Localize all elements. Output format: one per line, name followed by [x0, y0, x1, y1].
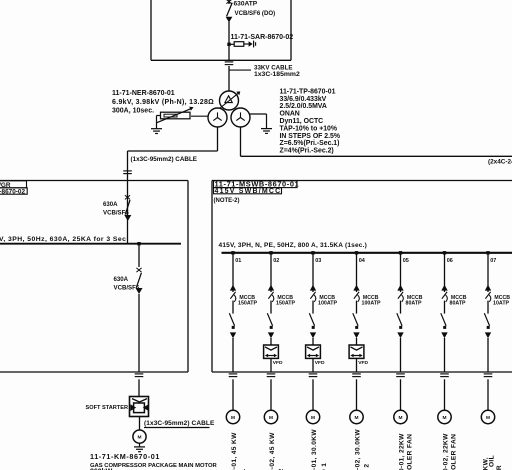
svg-text:(1x3C-95mm2) CABLE: (1x3C-95mm2) CABLE: [131, 156, 198, 163]
svg-text:LUBE OIL: LUBE OIL: [489, 455, 496, 470]
svg-text:6.9kV, 3.98kV (Ph-N), 13.28Ω: 6.9kV, 3.98kV (Ph-N), 13.28Ω: [112, 99, 214, 106]
svg-text:150ATP: 150ATP: [238, 300, 258, 306]
svg-text:M: M: [311, 415, 315, 421]
svg-text:M: M: [231, 415, 235, 421]
svg-text:630A: 630A: [114, 276, 129, 283]
svg-text:S COOLER FAN: S COOLER FAN: [407, 434, 414, 470]
svg-text:03: 03: [315, 258, 321, 264]
svg-text:8670-01, 45 KW: 8670-01, 45 KW: [231, 432, 238, 470]
svg-text:8670-02, 22KW: 8670-02, 22KW: [443, 433, 450, 470]
svg-text:ONAN: ONAN: [280, 111, 300, 118]
svg-text:07: 07: [490, 258, 496, 264]
svg-text:100ATP: 100ATP: [362, 300, 382, 306]
svg-text:Dyn11, OCTC: Dyn11, OCTC: [280, 118, 324, 125]
svg-text:415V, 3PH, N, PE, 50HZ, 800 A: 415V, 3PH, N, PE, 50HZ, 800 A, 31.5KA (1…: [219, 242, 367, 249]
svg-text:8670-01, 22KW: 8670-01, 22KW: [399, 433, 406, 470]
svg-text:11-71-TP-8670-01: 11-71-TP-8670-01: [280, 88, 336, 95]
svg-text:11-71-KM-8670-01: 11-71-KM-8670-01: [90, 452, 160, 461]
svg-text:630A: 630A: [103, 201, 118, 208]
svg-text:M: M: [443, 415, 447, 421]
svg-text:VCB/SF6: VCB/SF6: [114, 285, 140, 292]
svg-text:80ATP: 80ATP: [450, 300, 467, 306]
svg-text:05: 05: [403, 258, 409, 264]
svg-text:415V SWB/MCC: 415V SWB/MCC: [215, 188, 282, 195]
svg-text:B-8670-02: B-8670-02: [0, 189, 25, 196]
svg-text:VFD: VFD: [358, 360, 368, 366]
svg-text:M: M: [138, 435, 142, 441]
svg-text:630ATP: 630ATP: [234, 0, 258, 7]
svg-text:VCB/SF6: VCB/SF6: [103, 209, 129, 216]
svg-text:TAP-10% to +10%: TAP-10% to +10%: [280, 125, 338, 132]
svg-text:11-71-NER-8670-01: 11-71-NER-8670-01: [112, 90, 175, 97]
svg-text:M: M: [486, 415, 490, 421]
svg-text:1x3C-185mm2: 1x3C-185mm2: [254, 71, 300, 78]
svg-text:VCB/SF6 (DO): VCB/SF6 (DO): [235, 10, 276, 17]
svg-text:IN STEPS OF 2.5%: IN STEPS OF 2.5%: [280, 133, 341, 140]
svg-text:150ATP: 150ATP: [276, 300, 296, 306]
svg-text:100ATP: 100ATP: [318, 300, 338, 306]
svg-text:2.5/2.0/0.5MVA: 2.5/2.0/0.5MVA: [280, 103, 327, 110]
svg-text:8670-01, 30.0KW: 8670-01, 30.0KW: [311, 429, 318, 470]
svg-text:VFD: VFD: [273, 360, 283, 366]
svg-text:S COOLER FAN: S COOLER FAN: [451, 434, 458, 470]
svg-text:02: 02: [273, 258, 279, 264]
svg-text:(NOTE-2): (NOTE-2): [214, 198, 240, 204]
svg-text:(1x3C-95mm2) CABLE: (1x3C-95mm2) CABLE: [144, 420, 215, 427]
svg-text:11-71-SAR-8670-02: 11-71-SAR-8670-02: [231, 34, 294, 41]
svg-text:01: 01: [235, 258, 241, 264]
svg-text:NO 2: NO 2: [364, 464, 371, 470]
svg-text:MOTOR: MOTOR: [496, 465, 503, 470]
svg-text:80ATP: 80ATP: [406, 300, 423, 306]
svg-text:8670-02, 45 KW: 8670-02, 45 KW: [269, 432, 276, 470]
svg-text:8670-02, 30.0KW: 8670-02, 30.0KW: [355, 429, 362, 470]
svg-text:M: M: [355, 415, 359, 421]
svg-text:V, 3PH, 50Hz, 630A, 25KA for 3: V, 3PH, 50Hz, 630A, 25KA for 3 Sec: [0, 236, 126, 243]
svg-text:(2x4C-240mm2) CABLE: (2x4C-240mm2) CABLE: [488, 159, 512, 166]
svg-text:300A, 10sec.: 300A, 10sec.: [112, 107, 154, 114]
svg-text:33/6.9/0.433kV: 33/6.9/0.433kV: [280, 96, 327, 103]
svg-text:NO 1: NO 1: [321, 463, 328, 470]
svg-text:Z=4%(Pri.-Sec.2): Z=4%(Pri.-Sec.2): [280, 148, 334, 155]
svg-text:04: 04: [359, 258, 366, 264]
svg-text:10ATP: 10ATP: [493, 300, 510, 306]
svg-text:SOFT STARTER: SOFT STARTER: [86, 405, 128, 411]
svg-text:M: M: [269, 415, 273, 421]
svg-text:06: 06: [447, 258, 453, 264]
svg-text:M: M: [399, 415, 403, 421]
svg-text:VFD: VFD: [315, 360, 325, 366]
svg-text:Z=6.5%(Pri.-Sec.1): Z=6.5%(Pri.-Sec.1): [280, 140, 340, 147]
